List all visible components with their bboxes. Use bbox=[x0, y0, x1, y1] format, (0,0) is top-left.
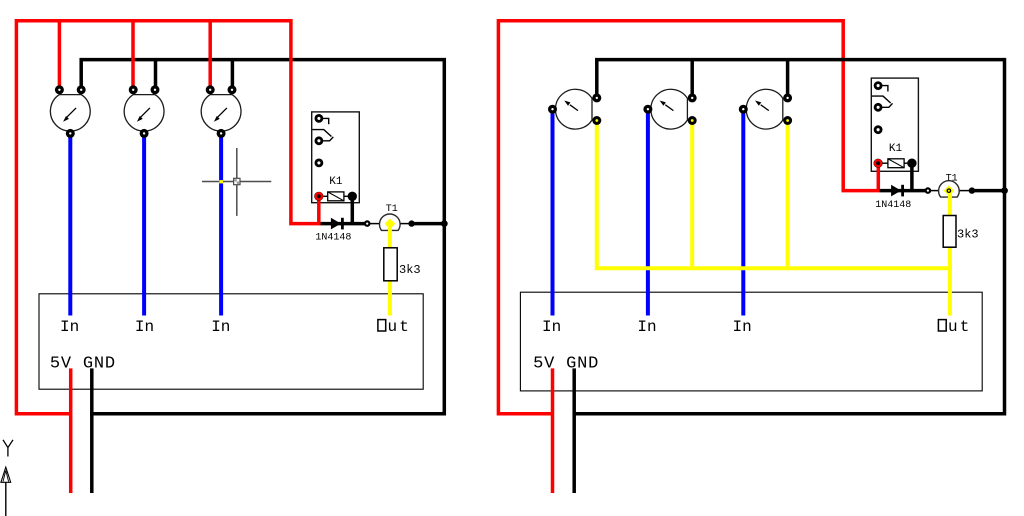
svg-text:K1: K1 bbox=[329, 176, 343, 188]
svg-text:1N4148: 1N4148 bbox=[315, 232, 351, 243]
svg-text:ut: ut bbox=[948, 318, 972, 336]
wire yellow from R5 wiper to bus (right) bbox=[597, 122, 952, 268]
svg-text:5V GND: 5V GND bbox=[50, 354, 116, 373]
wire blue In 1 (left) bbox=[68, 132, 72, 316]
wire yellow T1 to Out (left) bbox=[388, 224, 392, 316]
wire blue In 3 (left) bbox=[219, 132, 223, 316]
pad R7 wiper bbox=[783, 116, 792, 125]
diode D2 right 1N4148 bbox=[891, 185, 903, 197]
svg-text:3k3: 3k3 bbox=[957, 228, 979, 242]
pad K1 left pin 1 bbox=[315, 114, 324, 123]
pad R7 terminal 1 bbox=[739, 105, 748, 114]
wire red feeder to R2 (left) bbox=[131, 22, 135, 89]
axis label Y bbox=[3, 440, 13, 457]
wire blue In 2 (left) bbox=[142, 132, 146, 316]
label Out (right) bbox=[938, 318, 971, 336]
wire black feeder to R3 (left) bbox=[231, 60, 235, 90]
pad R6 terminal 1 bbox=[643, 105, 652, 114]
cursor crosshair bbox=[202, 148, 271, 216]
wire blue In 2 (right) bbox=[646, 111, 650, 316]
svg-text:5V GND: 5V GND bbox=[533, 354, 599, 373]
wire red 5V net (left): border, top rail, drop to relay bbox=[16, 21, 318, 414]
pad K1 left coil + (red) bbox=[314, 192, 323, 201]
svg-text:In: In bbox=[60, 318, 79, 336]
relay K1 left body bbox=[312, 112, 360, 203]
wire black diode row thick segment (left) bbox=[319, 222, 366, 226]
junction at right border (right) bbox=[1001, 187, 1008, 194]
wire red 5V net (right): border, top rail, drop to relay bbox=[498, 21, 878, 414]
wire red 5V drop (left) bbox=[69, 368, 73, 493]
wire yellow from R6 wiper (right) bbox=[690, 122, 694, 266]
pad K1 right pin 1 bbox=[874, 81, 883, 90]
pad R1 terminal 1 bbox=[55, 85, 64, 94]
wire black relay coil to diode row (right) bbox=[910, 163, 914, 190]
potentiometer R2 bbox=[124, 95, 164, 132]
wire blue In 3 (right) bbox=[741, 111, 745, 316]
axis Y arrow bbox=[1, 467, 11, 516]
wire red feeder to R3 (left) bbox=[208, 22, 212, 89]
wire red 5V drop (right) bbox=[551, 368, 555, 493]
relay K1 right coil bbox=[881, 159, 909, 168]
wire thin lead from T1 (left) bbox=[399, 223, 412, 225]
junction diode-T1 (right) bbox=[925, 187, 932, 194]
pad R5 wiper bbox=[592, 116, 601, 125]
pad R7 terminal 3 bbox=[783, 93, 792, 102]
wire black bus/top + right border + bottom (left) bbox=[81, 60, 444, 414]
pad K1 left pin 2 bbox=[315, 136, 324, 145]
relay K1 right body bbox=[871, 78, 918, 171]
wire black from T1 to right border (left) bbox=[412, 222, 446, 226]
pad R1 wiper bbox=[66, 129, 75, 138]
svg-text:In: In bbox=[542, 318, 561, 336]
svg-text:In: In bbox=[211, 318, 230, 336]
pad R3 terminal 3 bbox=[228, 85, 237, 94]
wire yellow from R7 wiper (right) bbox=[786, 122, 790, 266]
pad R3 wiper bbox=[217, 129, 226, 138]
relay K1 right contact pin 1 bbox=[882, 86, 888, 92]
svg-text:T1: T1 bbox=[386, 204, 398, 215]
resistor R4 left 3k3 bbox=[384, 248, 397, 281]
relay K1 left coil bbox=[322, 192, 349, 201]
pad R2 terminal 1 bbox=[129, 85, 138, 94]
resistor R8 right 3k3 bbox=[943, 216, 956, 248]
pad R5 terminal 3 bbox=[592, 93, 601, 102]
svg-text:1N4148: 1N4148 bbox=[875, 200, 911, 211]
wire thin base lead to T1 (right) bbox=[927, 190, 940, 192]
pad K1 right coil - bbox=[907, 159, 916, 168]
junction diode-T1 (left) bbox=[364, 220, 371, 227]
junction T1 output (left) bbox=[408, 220, 414, 226]
junction at right border (left) bbox=[441, 220, 448, 227]
pad R3 terminal 1 bbox=[206, 85, 215, 94]
wire black GND drop (left) bbox=[90, 368, 94, 493]
wire blue In 1 (right) bbox=[551, 111, 555, 316]
wire black from T1 to right border (right) bbox=[972, 189, 1006, 193]
pad K1 left pin 3 bbox=[315, 159, 324, 168]
svg-text:T1: T1 bbox=[946, 173, 958, 184]
potentiometer R7 bbox=[746, 89, 783, 129]
potentiometer R3 bbox=[201, 95, 241, 132]
pad K1 right coil + (red) bbox=[874, 159, 883, 168]
transistor center contact bbox=[385, 219, 396, 230]
label Out (left) bbox=[378, 318, 411, 336]
wire red feeder to R1 (left) bbox=[58, 22, 62, 89]
transistor center contact bbox=[944, 185, 955, 196]
board rectangle (right module) bbox=[520, 292, 982, 391]
wire black feeder to R2 (left) bbox=[154, 60, 158, 90]
svg-text:In: In bbox=[135, 318, 154, 336]
board rectangle (left module) bbox=[39, 294, 423, 389]
relay K1 left contact pin 1 bbox=[322, 118, 328, 124]
wire black GND drop (right) bbox=[572, 368, 576, 493]
pad R5 terminal 1 bbox=[548, 105, 557, 114]
junction T1 output (right) bbox=[969, 187, 975, 193]
wire black bus/top + right border + bottom (right) bbox=[573, 60, 1005, 414]
relay K1 right contact arm bbox=[872, 96, 893, 107]
pad K1 left coil - bbox=[348, 192, 357, 201]
potentiometer R1 bbox=[50, 95, 90, 132]
svg-text:ut: ut bbox=[388, 318, 412, 336]
wire black relay coil to diode row (left) bbox=[351, 196, 355, 223]
wire thin lead from T1 (right) bbox=[958, 190, 973, 192]
pad R2 wiper bbox=[140, 129, 149, 138]
diode D1 left 1N4148 bbox=[331, 218, 343, 230]
pad R2 terminal 3 bbox=[151, 85, 160, 94]
transistor T1 left body bbox=[380, 214, 401, 230]
svg-text:In: In bbox=[637, 318, 656, 336]
pad R6 wiper bbox=[688, 116, 697, 125]
wire black diode row thick segment (right) bbox=[880, 189, 928, 193]
potentiometer R6 bbox=[651, 89, 688, 129]
wire yellow T1 to Out (right) bbox=[948, 191, 952, 316]
svg-text:K1: K1 bbox=[889, 143, 903, 155]
wire thin base lead to T1 (left) bbox=[367, 223, 382, 225]
potentiometer R5 bbox=[555, 89, 592, 129]
svg-text:In: In bbox=[733, 318, 752, 336]
relay K1 left contact arm bbox=[312, 130, 333, 141]
svg-text:3k3: 3k3 bbox=[399, 263, 421, 277]
pad R1 terminal 3 bbox=[77, 85, 86, 94]
wire black feeder to R6 (right) bbox=[690, 60, 694, 98]
transistor T1 right body bbox=[939, 181, 960, 197]
pad K1 right pin 3 bbox=[874, 125, 883, 134]
wire black feeder to R7 (right) bbox=[786, 60, 790, 98]
pad R6 terminal 3 bbox=[688, 93, 697, 102]
pad K1 right pin 2 bbox=[874, 103, 883, 112]
